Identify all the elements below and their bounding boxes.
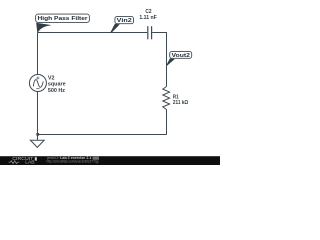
svg-text:500 Hz: 500 Hz (48, 88, 65, 94)
svg-text:High Pass Filter: High Pass Filter (38, 16, 89, 22)
svg-text:Vout2: Vout2 (172, 53, 190, 59)
svg-text:V2: V2 (48, 75, 55, 81)
svg-text:http://circuitlab.com/users/36: http://circuitlab.com/users/36z377qp (47, 159, 99, 163)
svg-text:211 kΩ: 211 kΩ (173, 100, 188, 106)
svg-text:1.11 nF: 1.11 nF (139, 15, 157, 21)
svg-text:C2: C2 (145, 9, 151, 15)
svg-text:LAB: LAB (25, 160, 35, 165)
svg-text:Vin2: Vin2 (117, 18, 132, 24)
svg-text:square: square (48, 82, 66, 88)
